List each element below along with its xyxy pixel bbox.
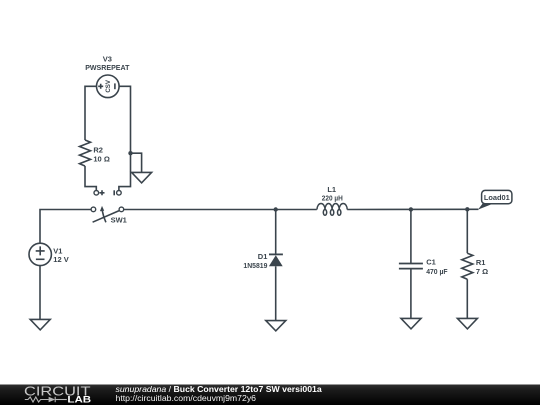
label L1 220 uH [322,185,343,203]
wire V3 right side down to SW1 minus terminal [119,86,131,190]
wire C1 to ground [410,269,412,319]
wire V1 bottom to ground [39,266,41,320]
wire SW1 plus terminal up-left to R2 [85,166,96,190]
wire R1 to ground [466,279,468,318]
diode D1 [269,254,283,266]
voltage source V1 [29,243,51,265]
svg-text:220 µH: 220 µH [322,193,343,202]
ground (C1) [401,318,421,329]
svg-text:R1: R1 [476,258,486,267]
switch SW1 [91,206,124,222]
label D1 1N5819 [243,252,267,270]
wire V1 top to main rail [40,210,91,244]
node flag Load01 [478,190,512,209]
node C1 top junction [409,207,413,211]
label V3 PWSREPEAT [85,55,130,72]
wire rail to C1 [410,209,412,263]
wire junction to ground [131,153,142,172]
svg-text:1N5819: 1N5819 [243,261,267,270]
svg-text:LAB: LAB [67,395,91,405]
svg-text:http://circuitlab.com/cdeuvmj9: http://circuitlab.com/cdeuvmj9m72y6 [116,393,257,403]
label R2 10 Ohm [93,146,109,164]
label V1 12 V [53,246,68,263]
svg-text:7 Ω: 7 Ω [476,267,488,276]
svg-text:C1: C1 [426,258,436,267]
wire main rail from L1 to Load01 [347,208,478,210]
inductor L1 [317,204,347,216]
label C1 470 uF [426,258,448,276]
ground (R1) [457,318,477,329]
capacitor C1 [399,264,423,269]
svg-text:SW1: SW1 [111,215,127,224]
svg-text:D1: D1 [258,252,268,261]
ground (D1) [266,321,286,331]
footer bar [0,385,540,405]
wire D1 anode to ground [275,266,277,320]
wire R2 top to V3 left [85,86,97,140]
wire rail to R1 [466,209,468,253]
svg-text:470 µF: 470 µF [426,267,448,276]
ground (V3 loop) [132,172,152,183]
wire main rail from SW1 to L1 [124,209,317,211]
logo CIRCUIT LAB [24,384,91,404]
node R1 top junction [465,207,469,211]
svg-text:CSV: CSV [105,79,112,93]
svg-text:PWSREPEAT: PWSREPEAT [85,63,130,72]
resistor R1 [462,253,473,279]
SW1 control terminal - [114,190,121,195]
svg-text:12 V: 12 V [53,255,68,264]
SW1 control terminal + [94,190,105,195]
svg-text:Load01: Load01 [484,193,510,202]
source V3 (PWSREPEAT) [97,75,120,98]
svg-text:10 Ω: 10 Ω [93,155,109,164]
svg-text:R2: R2 [93,146,103,155]
label R1 7 Ohm [476,258,488,276]
node D1 top junction [274,207,278,211]
ground (V1) [30,319,50,330]
resistor R2 [80,140,91,166]
node junction on V3 right branch [128,151,132,155]
wire rail to D1 cathode [275,210,277,255]
